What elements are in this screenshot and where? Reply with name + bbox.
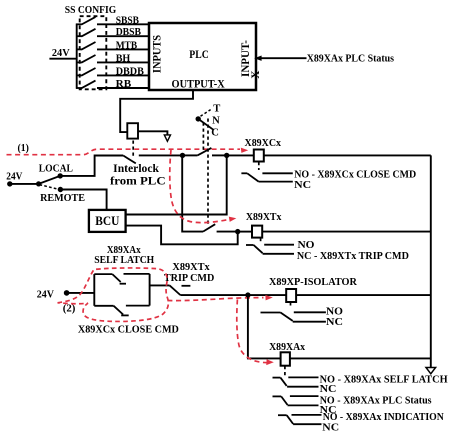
mechanical link X89XP coil to contact (dashed) [290, 302, 292, 307]
wire node A down to trip row [182, 155, 203, 231]
PLC box U1 [149, 23, 256, 90]
self latch block left rail [93, 274, 95, 306]
contact X89XAx INDICATION [278, 415, 322, 424]
svg-text:X89XAx: X89XAx [269, 342, 306, 353]
terminal 24V bottom [64, 290, 70, 296]
contact X89XAx PLC Status [273, 396, 319, 405]
interlock contact arm [123, 156, 136, 164]
wire SBSB to PLC [97, 23, 149, 25]
svg-text:BH: BH [116, 53, 131, 64]
red dashed path loop exit to X89XP [168, 298, 264, 301]
relay coil X89XCx [254, 150, 264, 162]
wire node C to X89XTx coil [238, 231, 252, 233]
switch arm to LOCAL [39, 176, 60, 184]
svg-text:NC: NC [294, 180, 311, 191]
svg-text:(1): (1) [18, 142, 30, 154]
wire trip switch to X89XP coil [180, 294, 286, 296]
svg-text:OUTPUT-X: OUTPUT-X [172, 78, 225, 90]
svg-text:INPUTS: INPUTS [152, 35, 164, 73]
svg-text:PLC: PLC [189, 49, 208, 61]
contact X89XTx TRIP CMD [246, 245, 294, 254]
svg-text:NC: NC [326, 317, 343, 328]
svg-text:C: C [211, 127, 219, 138]
relay coil X89XP [286, 289, 296, 302]
node D junction [245, 292, 250, 297]
node C junction [235, 229, 240, 234]
switch BH [76, 55, 96, 63]
wire node B to X89XCx coil [227, 154, 254, 156]
svg-text:T: T [213, 103, 220, 114]
wire X89XAx PLC Status input arrow [259, 57, 307, 59]
node selector pivot [36, 181, 41, 186]
relay coil X89XAx [281, 352, 290, 365]
svg-text:NO - X89XCx CLOSE CMD: NO - X89XCx CLOSE CMD [294, 170, 416, 181]
trip row contact arm [203, 224, 215, 231]
wire node A to TNC contact [183, 154, 198, 156]
wire PLC OUTPUT-X down to interlock coil [120, 90, 193, 132]
wire BCU trip output to node C [126, 226, 238, 245]
svg-text:X89XTx: X89XTx [246, 212, 282, 223]
mechanical link X89XCx coil to contact (dashed) [258, 162, 260, 170]
self latch block right rail [149, 274, 151, 306]
terminal 24V middle [7, 181, 12, 186]
red arrowhead at X89XCx coil [241, 148, 248, 153]
svg-text:Interlock: Interlock [113, 162, 159, 175]
svg-text:NO - X89XAx INDICATION: NO - X89XAx INDICATION [323, 412, 445, 423]
svg-text:LOCAL: LOCAL [39, 163, 74, 174]
svg-text:SS CONFIG: SS CONFIG [65, 5, 117, 16]
wire interlock coil to down arrow [138, 131, 167, 135]
node B junction [224, 153, 229, 158]
svg-text:X89XAx PLC Status: X89XAx PLC Status [307, 53, 394, 64]
node A junction [180, 153, 185, 158]
svg-text:X89XCx CLOSE CMD: X89XCx CLOSE CMD [78, 324, 179, 335]
svg-text:X89XTx: X89XTx [172, 262, 210, 273]
svg-text:NO - X89XAx SELF LATCH: NO - X89XAx SELF LATCH [320, 374, 448, 385]
svg-text:DBSB: DBSB [116, 27, 141, 38]
wire node B down to BCU wire [126, 155, 227, 214]
svg-text:MTB: MTB [116, 40, 138, 51]
ground arrow (open) [426, 368, 436, 374]
svg-text:NC: NC [322, 423, 339, 434]
relay coil X89XTx [252, 226, 262, 238]
svg-text:NO: NO [298, 240, 315, 251]
red dashed path to X89XAx [237, 300, 268, 363]
mechanical link TNC left (dashed) [202, 123, 204, 151]
svg-text:RB: RB [116, 79, 132, 90]
red dashed latch loop (2) [58, 268, 169, 322]
mechanical link interlock coil to contact (dashed) [132, 141, 134, 157]
TNC dashed alternate arm to T [201, 110, 211, 117]
mechanical link TNC right (dashed) [207, 119, 209, 227]
wire trip contact to node C [217, 231, 238, 233]
svg-text:24V: 24V [37, 289, 55, 300]
svg-text:REMOTE: REMOTE [40, 193, 85, 204]
BCU box [89, 210, 126, 232]
svg-text:BCU: BCU [95, 214, 119, 228]
interlock relay coil [127, 123, 138, 138]
red arrowhead at X89XAx coil [266, 359, 274, 365]
right return bus [430, 155, 432, 367]
switch DBSB [76, 29, 96, 37]
svg-text:SELF LATCH: SELF LATCH [94, 255, 154, 266]
svg-text:DBDB: DBDB [116, 66, 144, 77]
wire MTB to PLC [97, 48, 149, 50]
switch MTB [76, 42, 96, 50]
wire DBDB to PLC [97, 74, 149, 76]
switch common bus [76, 24, 78, 89]
wire RB to PLC [97, 87, 149, 89]
wire 24V to selector pivot [10, 183, 39, 185]
svg-text:TRIP CMD: TRIP CMD [164, 273, 214, 284]
svg-text:X89XCx: X89XCx [245, 138, 282, 149]
wire latch block to trip switch [150, 284, 170, 286]
switch SBSB [76, 17, 96, 25]
dashed alternate arm to REMOTE [40, 185, 59, 190]
wire 24V to latch block [67, 292, 95, 294]
wire DBSB to PLC [97, 35, 149, 37]
wire interlock contact to node A [139, 154, 183, 156]
red arrowhead at X89XP coil [265, 295, 272, 300]
trip switch arm [170, 285, 181, 295]
svg-text:NC: NC [320, 384, 337, 395]
arrowhead into PLC INPUT-X [254, 56, 261, 61]
TNC selector arm to C [198, 119, 213, 130]
mechanical link X89XTx coil to contact (dashed) [260, 238, 262, 243]
svg-text:NC - X89XTx TRIP CMD: NC - X89XTx TRIP CMD [297, 251, 409, 262]
wire TNC contact to node B [212, 154, 227, 156]
wire X89XP coil to right bus [296, 294, 431, 296]
svg-text:X: X [250, 70, 262, 79]
red dashed trip path branch [170, 150, 230, 223]
svg-text:24V: 24V [52, 48, 70, 59]
switch RB [76, 81, 96, 89]
wire X89XCx coil to right bus [264, 154, 431, 156]
switch DBDB [76, 68, 96, 76]
wire node D down to X89XAx coil [248, 295, 281, 358]
svg-text:X89XP-ISOLATOR: X89XP-ISOLATOR [269, 277, 358, 288]
SS CONFIG dashed enclosure [80, 16, 107, 89]
node REMOTE contact [58, 187, 63, 192]
red arrowhead at X89XTx [229, 217, 237, 222]
wire REMOTE to BCU [60, 190, 106, 210]
wire X89XTx coil to right bus [262, 231, 431, 233]
wire LOCAL to interlock contact [60, 156, 123, 176]
wire BH to PLC [97, 61, 149, 63]
svg-text:from PLC: from PLC [110, 174, 166, 187]
contact X89XAx SELF LATCH [273, 377, 319, 386]
svg-text:24V: 24V [6, 171, 23, 182]
wire 24V to switch bus [49, 58, 76, 60]
wire X89XAx coil to right bus [290, 357, 431, 359]
self latch upper branch contact [94, 274, 149, 284]
trip switch fixed stub [182, 285, 191, 287]
contact X89XCx CLOSE CMD [241, 173, 292, 181]
svg-text:N: N [212, 115, 220, 126]
TNC selector pivot [196, 116, 201, 121]
node LOCAL contact [58, 173, 63, 178]
down arrow (open) [164, 135, 170, 141]
red dashed close-command path (1) [7, 149, 241, 155]
self latch lower branch contact [94, 306, 149, 316]
mechanical link X89XAx coil to contacts (dashed) [284, 366, 286, 377]
TNC contact arm [197, 148, 211, 156]
contact X89XP ISOLATOR [261, 312, 326, 321]
svg-text:SBSB: SBSB [116, 15, 139, 26]
